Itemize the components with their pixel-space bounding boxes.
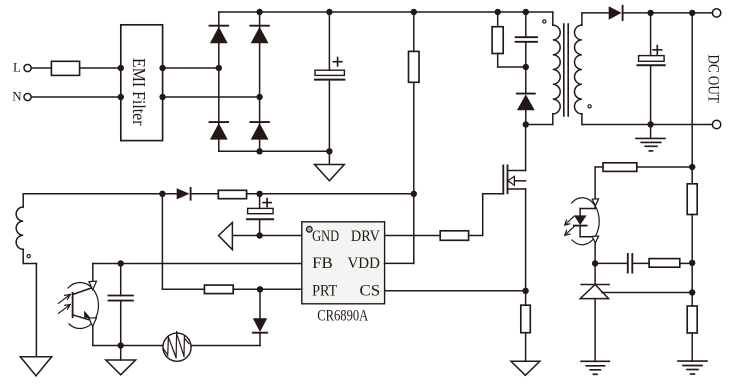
node bridge N input <box>256 94 262 100</box>
wire bridge bottom rail <box>219 150 330 152</box>
transformer primary polarity dot <box>543 20 546 23</box>
node compensation join <box>689 260 695 266</box>
node EMI output L <box>159 65 165 71</box>
terminal N <box>24 93 31 100</box>
ground aux winding (triangle) <box>20 357 51 376</box>
svg-text:CS: CS <box>360 282 381 299</box>
node aux rail startup join <box>411 191 417 197</box>
aux winding polarity dot <box>27 255 30 258</box>
ground IC (sideways triangle) <box>219 223 302 250</box>
capacitor C1 bulk electrolytic <box>315 12 344 151</box>
earth ground TL431 <box>581 361 609 374</box>
terminal DC OUT positive <box>712 9 720 17</box>
wire bridge right column <box>259 12 261 151</box>
thermistor RT1 <box>163 332 191 362</box>
opto transistor light arrows <box>59 294 71 313</box>
diode D5 clamp <box>517 67 535 125</box>
wire FB line <box>93 263 302 265</box>
resistor R10 compensation <box>632 259 692 268</box>
op-amp U1 CR6890A <box>302 222 385 304</box>
resistor R5 VDD series (horizontal) <box>218 190 413 198</box>
resistor R4 current sense (vertical) <box>521 291 531 362</box>
svg-text:FB: FB <box>312 255 333 272</box>
transistor Q1 MOSFET <box>483 125 526 291</box>
node output bottom earth <box>647 121 653 127</box>
svg-text:VDD: VDD <box>348 255 380 272</box>
diode D7 PRT (pointing down) <box>253 289 267 345</box>
wire primary bottom <box>526 124 553 126</box>
node divider top <box>689 10 695 16</box>
node snubber RC join <box>523 64 529 70</box>
capacitor C5 output electrolytic <box>638 13 665 125</box>
node top rail snubber resistor <box>495 9 501 15</box>
resistor R7 divider upper (vertical) <box>687 184 697 293</box>
wire CS line <box>385 290 526 292</box>
resistor R6 PRT (horizontal) <box>204 285 301 294</box>
wire aux winding top rail <box>23 193 177 195</box>
node EMI input L <box>118 65 124 71</box>
transformer T1 primary winding <box>553 12 560 125</box>
node top rail bridge right <box>256 9 262 15</box>
resistor R9 opto bias (horizontal) <box>595 163 692 172</box>
svg-text:DRV: DRV <box>351 228 381 245</box>
wire fuse to EMI filter <box>80 67 121 69</box>
svg-text:L: L <box>13 60 21 75</box>
transformer T1 core <box>564 24 568 116</box>
resistor R3 gate (horizontal) <box>385 194 483 241</box>
optocoupler U2 LED side <box>572 167 600 263</box>
ground CS (triangle) <box>511 361 540 375</box>
diode D1 bridge top-left <box>210 26 229 44</box>
earth ground secondary <box>636 125 665 151</box>
ground FB filter (triangle) <box>106 346 136 375</box>
svg-text:CR6890A: CR6890A <box>317 307 369 324</box>
optocoupler U2 transistor side <box>68 264 98 346</box>
node GND line cap join <box>256 232 262 238</box>
wire opto emitter bottom rail <box>93 345 260 347</box>
wire output bottom rail <box>582 124 713 126</box>
terminal L <box>24 64 31 71</box>
node TL431 ref join <box>689 289 695 295</box>
ground primary (triangle) <box>315 151 345 181</box>
node aux rail PRT branch <box>159 191 165 197</box>
node bottom rail bulk cap <box>326 148 332 154</box>
wire bridge left column <box>218 12 220 151</box>
transformer T1 secondary winding <box>575 13 582 125</box>
capacitor C2 snubber <box>516 12 537 67</box>
diode D4 bridge bottom-right <box>250 122 269 140</box>
svg-text:PRT: PRT <box>312 282 337 299</box>
node VDD cap top <box>256 191 262 197</box>
wire VDD pin to startup rail <box>385 194 414 264</box>
wire HV top rail <box>219 11 553 13</box>
node EMI output N <box>159 94 165 100</box>
terminal DC OUT negative <box>712 120 720 128</box>
node top rail startup resistor <box>411 9 417 15</box>
opto LED light arrows <box>565 217 574 236</box>
node TL431 cathode join <box>592 260 598 266</box>
wire PRT branch vertical <box>162 194 204 289</box>
node FB cap join <box>118 260 124 266</box>
diode D6 VDD rectifier <box>177 188 219 200</box>
wire secondary top to output diode <box>582 12 609 14</box>
svg-text:N: N <box>12 89 22 104</box>
wire EMI L out to bridge <box>163 67 219 69</box>
resistor R1 startup (vertical) <box>409 12 420 194</box>
wire feedback divider vertical <box>691 13 693 184</box>
node bottom rail cap join <box>118 342 124 348</box>
fuse F1 <box>51 61 79 75</box>
node bridge L input <box>216 65 222 71</box>
resistor R2 snubber (vertical) <box>492 12 526 67</box>
wire output positive rail <box>623 12 713 14</box>
wire EMI N out to bridge <box>163 96 260 98</box>
TL431 U3 shunt regulator <box>580 285 609 362</box>
capacitor C4 FB filter <box>109 264 133 346</box>
wire TL431 ref to divider <box>602 292 692 294</box>
node EMI input N <box>118 94 124 100</box>
node PRT diode join <box>257 286 263 292</box>
earth ground divider <box>678 361 707 374</box>
transformer secondary polarity dot <box>588 105 591 108</box>
wire L terminal to fuse <box>31 67 51 69</box>
wire TL431 cathode <box>594 263 596 284</box>
node output cap top <box>647 10 653 16</box>
diode D8 output rectifier <box>609 6 623 20</box>
capacitor C3 VDD electrolytic <box>247 194 273 236</box>
EMI filter block <box>121 25 163 141</box>
diode D2 bridge top-right <box>250 26 269 44</box>
node CS source junction <box>522 288 528 294</box>
resistor R8 divider lower (vertical) <box>687 293 697 362</box>
node divider bias resistor tap <box>689 164 695 170</box>
node top rail bulk cap <box>326 9 332 15</box>
inductor L1 aux winding <box>16 194 36 357</box>
capacitor C6 compensation <box>595 254 632 273</box>
svg-text:GND: GND <box>312 228 339 245</box>
node top rail snubber cap <box>523 9 529 15</box>
node bottom rail bridge right <box>256 148 262 154</box>
node primary bottom / drain <box>523 121 529 127</box>
svg-text:EMI Filter: EMI Filter <box>129 58 149 126</box>
wire N terminal to EMI filter <box>31 96 121 98</box>
diode D3 bridge bottom-left <box>210 122 229 140</box>
svg-text:DC OUT: DC OUT <box>705 55 722 103</box>
